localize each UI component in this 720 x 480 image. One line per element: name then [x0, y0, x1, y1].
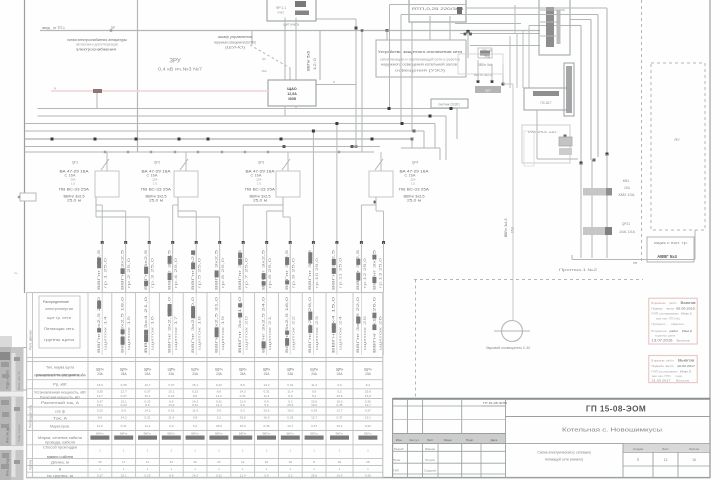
- svg-text:ЯУ: ЯУ: [674, 137, 680, 142]
- svg-text:гр.1 25,0: гр.1 25,0: [104, 258, 108, 288]
- svg-text:ЩО: ЩО: [485, 89, 491, 93]
- svg-text:АВВГ 5х4: АВВГ 5х4: [657, 254, 677, 259]
- bus y=152: [25, 151, 374, 153]
- svg-text:Проверил: Проверил: [652, 322, 666, 326]
- svg-text:ВВГнг 3х2,5: ВВГнг 3х2,5: [215, 250, 219, 290]
- svg-text:0,35: 0,35: [365, 474, 371, 478]
- cable mark cell col 5: [186, 436, 205, 440]
- svg-text:ВВГнг 3х2,5: ВВГнг 3х2,5: [356, 250, 360, 290]
- svg-text:ВВГнг: ВВГнг: [120, 431, 128, 435]
- svg-text:12,5А: 12,5А: [287, 92, 297, 96]
- svg-text:число: число: [666, 307, 674, 311]
- svg-text:Расчетный ток, А: Расчетный ток, А: [41, 401, 80, 405]
- direct bus feed column 10: [312, 131, 314, 242]
- dashed vertical x=641.5: [641, 0, 643, 261]
- svg-text:щиток 26: щиток 26: [379, 316, 383, 350]
- frame label box: [20, 193, 36, 201]
- svg-text:работ: работ: [669, 301, 678, 305]
- svg-text:ВВГнг 3х2,5: ВВГнг 3х2,5: [474, 73, 492, 77]
- svg-text:14,2: 14,2: [216, 394, 222, 398]
- svg-text:Подп. и дата: Подп. и дата: [6, 370, 10, 389]
- svg-text:Подп.: Подп.: [466, 438, 474, 442]
- margin dark box: [0, 352, 10, 360]
- margin dark mottling: [1, 362, 9, 367]
- svg-text:5,2: 5,2: [217, 415, 222, 419]
- wire main horizontal y=30: [40, 30, 356, 32]
- svg-text:16,0: 16,0: [311, 403, 317, 407]
- title mini table: [622, 443, 624, 477]
- svg-text:24А: 24А: [287, 372, 294, 376]
- svg-text:питающей сети (начало): питающей сети (начало): [545, 458, 584, 462]
- svg-text:14,2: 14,2: [144, 409, 150, 413]
- feeder column 13: [383, 243, 385, 293]
- sheet bottom frame: [26, 477, 710, 479]
- svg-text:Изм.3: Изм.3: [680, 370, 691, 374]
- svg-text:14,2: 14,2: [168, 403, 174, 407]
- svg-text:14,2: 14,2: [121, 415, 127, 419]
- svg-text:щиток 18: щиток 18: [198, 316, 202, 350]
- svg-text:№ группы, м: № группы, м: [47, 474, 74, 478]
- svg-text:гр.3 25,0: гр.3 25,0: [151, 258, 155, 288]
- svg-text:освещения (УЗО): освещения (УЗО): [395, 69, 445, 73]
- K7 bottom wire path: [536, 110, 538, 159]
- bus y=123.5: [25, 123, 435, 125]
- svg-text:КМ 25А авт.: КМ 25А авт.: [528, 130, 558, 134]
- svg-text:ПВ ВС-33 25А: ПВ ВС-33 25А: [59, 188, 90, 192]
- svg-text:11: 11: [146, 460, 149, 464]
- svg-text:10: 10: [289, 460, 293, 464]
- svg-text:12: 12: [241, 460, 245, 464]
- svg-text:5,2: 5,2: [366, 383, 371, 387]
- svg-text:0,9: 0,9: [193, 415, 198, 419]
- svg-text:ПВ ВС-33 25А: ПВ ВС-33 25А: [399, 188, 430, 192]
- svg-text:ВВГнг: ВВГнг: [96, 431, 104, 435]
- svg-text:ВВГнг: ВВГнг: [310, 431, 318, 435]
- wire U1 down legs: [284, 18, 286, 81]
- svg-text:25,0 м: 25,0 м: [253, 199, 267, 203]
- svg-text:8,6: 8,6: [241, 383, 246, 387]
- red stamp box 2: [649, 356, 698, 383]
- svg-text:Вьюгов: Вьюгов: [681, 301, 696, 305]
- stubs from U4 down to U3: [429, 16, 431, 40]
- svg-text:0,22: 0,22: [168, 394, 174, 398]
- svg-text:25,0 м: 25,0 м: [67, 199, 81, 203]
- svg-text:Лист: Лист: [427, 438, 434, 442]
- svg-text:1,0: 1,0: [71, 181, 76, 185]
- feeder column 6: [219, 243, 221, 293]
- svg-text:гр.9 25,0: гр.9 25,0: [292, 258, 296, 288]
- svg-text:Разраб.: Разраб.: [394, 447, 405, 451]
- svg-text:ВВГнг 3х2,5: ВВГнг 3х2,5: [97, 250, 101, 290]
- svg-text:12,7: 12,7: [287, 424, 293, 428]
- top verticals feeding buses: [390, 4, 467, 6]
- relay group enclosure box: [522, 125, 570, 163]
- svg-text:Марка пров.: Марка пров.: [50, 425, 70, 429]
- svg-text:ГИП согласовано: ГИП согласовано: [652, 312, 679, 316]
- svg-text:В произ-во: В произ-во: [652, 301, 666, 305]
- feeder group QF4 input wire: [380, 152, 382, 171]
- svg-text:QF: QF: [262, 57, 266, 61]
- svg-text:11,4: 11,4: [240, 474, 246, 478]
- svg-text:0,9: 0,9: [288, 394, 293, 398]
- svg-text:ГИП: ГИП: [393, 469, 399, 473]
- svg-text:25,0 м: 25,0 м: [149, 199, 163, 203]
- svg-text:Стадия: Стадия: [633, 447, 644, 451]
- svg-text:0,22: 0,22: [97, 409, 103, 413]
- title rows left: [393, 450, 506, 452]
- svg-text:21.03.2017: 21.03.2017: [652, 379, 671, 383]
- svg-text:сигнализации и отключающей сет: сигнализации и отключающей сети и розето…: [380, 58, 461, 62]
- svg-text:0,22: 0,22: [365, 424, 371, 428]
- connector box K6 narrow: [564, 63, 574, 116]
- svg-text:12,7: 12,7: [97, 394, 103, 398]
- svg-text:8,6: 8,6: [122, 409, 127, 413]
- svg-text:ФР 2.1: ФР 2.1: [276, 6, 286, 10]
- svg-text:ВВГнг: ВВГнг: [336, 431, 344, 435]
- feeder table frame: [27, 293, 383, 478]
- svg-text:5,2: 5,2: [264, 403, 269, 407]
- svg-text:0,37: 0,37: [97, 474, 103, 478]
- margin white dividers: [0, 392, 24, 397]
- svg-text:24А: 24А: [337, 372, 344, 376]
- svg-text:щиток 24: щиток 24: [338, 316, 342, 350]
- svg-text:Звуковой оповещатель С-40: Звуковой оповещатель С-40: [486, 346, 531, 350]
- svg-text:Расч. данные: Расч. данные: [29, 330, 33, 350]
- svg-text:Группа: Группа: [29, 460, 33, 470]
- cable mark cell col 4: [162, 436, 181, 440]
- svg-text:линия электроснабжения аппарат: линия электроснабжения аппаратуры: [67, 38, 128, 42]
- svg-text:05.09.2015: 05.09.2015: [676, 307, 695, 311]
- bus y=146.5: [25, 146, 380, 148]
- svg-text:ВВГнг: ВВГнг: [263, 431, 271, 435]
- riser x=355 drop: [355, 31, 357, 147]
- svg-text:15,0: 15,0: [511, 227, 515, 233]
- svg-text:гр.7 25,0: гр.7 25,0: [245, 258, 249, 288]
- svg-text:0,37: 0,37: [144, 389, 150, 393]
- extra crossing wires top right: [455, 23, 521, 25]
- riser x=362: [361, 31, 363, 153]
- svg-text:ЩАО: ЩАО: [287, 87, 297, 91]
- feeder column 11: [336, 243, 338, 293]
- feeder column 3: [148, 243, 150, 293]
- svg-text:гр.8 25,0: гр.8 25,0: [268, 258, 272, 288]
- svg-text:0,31: 0,31: [240, 394, 246, 398]
- sheet right frame: [709, 0, 711, 478]
- svg-text:ПВ ВС-33 25А: ПВ ВС-33 25А: [141, 188, 172, 192]
- svg-text:0,9: 0,9: [337, 383, 342, 387]
- junction x594: [593, 159, 596, 162]
- feeder column 12: [360, 243, 362, 293]
- svg-text:В произ-во: В произ-во: [652, 329, 667, 333]
- svg-text:ВВГнг: ВВГнг: [167, 431, 175, 435]
- svg-text:16А 10А: 16А 10А: [619, 230, 636, 234]
- svg-text:ГИП согласовано: ГИП согласовано: [652, 370, 678, 374]
- feeder column 4: [172, 243, 174, 293]
- feeder column 7: [242, 243, 244, 293]
- svg-text:24А: 24А: [240, 372, 247, 376]
- feeder group QF2 input wire: [185, 152, 187, 171]
- svg-text:0,31: 0,31: [287, 383, 293, 387]
- margin connectors: [24, 347, 27, 349]
- K2 drop wires to bus: [284, 106, 286, 116]
- junction pair y=34: [464, 33, 467, 36]
- svg-text:25А: 25А: [624, 186, 631, 190]
- svg-text:5,2: 5,2: [288, 474, 293, 478]
- svg-text:ГП 15-08-ЭОМ: ГП 15-08-ЭОМ: [483, 401, 508, 405]
- bus y=108.5: [38, 108, 458, 110]
- svg-text:11,4: 11,4: [311, 383, 317, 387]
- svg-text:10: 10: [265, 460, 269, 464]
- dashed vertical x=415.5: [415, 280, 417, 399]
- svg-text:0,37: 0,37: [336, 415, 342, 419]
- svg-text:ВВГнг: ВВГнг: [215, 431, 223, 435]
- svg-text:ВВГнг: ВВГнг: [191, 431, 199, 435]
- svg-text:11,4: 11,4: [168, 415, 174, 419]
- svg-text:QF1: QF1: [72, 161, 79, 165]
- svg-text:щиток 20: щиток 20: [245, 316, 249, 350]
- bus y=139: [25, 138, 412, 140]
- svg-text:24А: 24А: [192, 372, 199, 376]
- svg-text:щит гр. сети: щит гр. сети: [47, 316, 71, 320]
- feeder junction dots row y=242: [101, 241, 104, 244]
- left margin block: [0, 336, 12, 347]
- contactor cluster B right: [583, 227, 608, 235]
- svg-text:16,0: 16,0: [263, 415, 269, 419]
- svg-text:щиток 22: щиток 22: [292, 316, 296, 350]
- svg-text:Взам. инв. №: Взам. инв. №: [17, 371, 21, 390]
- bus end drops staircase: [456, 109, 458, 140]
- svg-text:щиток 21: щиток 21: [268, 316, 272, 350]
- svg-text:20: 20: [338, 460, 342, 464]
- drop from red blob: [96, 93, 98, 109]
- svg-text:ВВГнг 3х1,5: ВВГнг 3х1,5: [504, 218, 508, 237]
- svg-text:15,1: 15,1: [336, 424, 342, 428]
- svg-text:№док.: №док.: [444, 438, 453, 442]
- cable mark cell col 9: [281, 436, 300, 440]
- svg-text:щиток 17: щиток 17: [174, 316, 178, 350]
- faint rect below K7: [524, 131, 534, 166]
- svg-text:гр.12 25,0: гр.12 25,0: [363, 258, 367, 288]
- svg-text:наружным освещением (ШУНО): наружным освещением (ШУНО): [214, 41, 256, 45]
- small connector box: [478, 48, 492, 58]
- feeder group QF1 input wire: [106, 152, 108, 171]
- svg-text:25,0 м: 25,0 м: [407, 199, 421, 203]
- svg-text:Изм.2: Изм.2: [682, 329, 692, 333]
- svg-text:0,37: 0,37: [311, 424, 317, 428]
- feeder column 5: [195, 243, 197, 293]
- svg-text:работ: работ: [666, 359, 675, 363]
- svg-text:11,4: 11,4: [145, 424, 151, 428]
- small outline box around labels: [458, 54, 503, 74]
- svg-text:1,0: 1,0: [153, 181, 158, 185]
- svg-text:0,9: 0,9: [264, 474, 269, 478]
- K4 dark element: [457, 7, 462, 15]
- node tick x=110: [110, 29, 113, 32]
- svg-text:гр.2 25,0: гр.2 25,0: [127, 258, 131, 288]
- fan out wires: [96, 204, 102, 206]
- svg-text:гр.5 25,0: гр.5 25,0: [198, 258, 202, 288]
- sheet left frame: [24, 0, 26, 293]
- svg-text:5,2: 5,2: [337, 389, 342, 393]
- svg-text:25,6: 25,6: [311, 474, 317, 478]
- box U2 ShchAO: [268, 80, 316, 106]
- svg-text:счет.: счет.: [278, 11, 285, 15]
- svg-text:0,35: 0,35: [97, 389, 103, 393]
- contactor cluster A right: [580, 163, 582, 258]
- svg-text:группы щита: группы щита: [44, 338, 74, 342]
- wire y=30.5 extension to right: [356, 30, 540, 32]
- svg-text:электроэнергии: электроэнергии: [45, 307, 73, 311]
- svg-text:щиток 16: щиток 16: [151, 316, 155, 350]
- svg-text:QF3: QF3: [258, 161, 265, 165]
- svg-text:подп.: подп.: [675, 374, 683, 378]
- svg-text:0,31: 0,31: [216, 474, 222, 478]
- svg-text:25,6: 25,6: [240, 415, 246, 419]
- svg-text:0,35: 0,35: [311, 409, 317, 413]
- svg-text:14,2: 14,2: [263, 383, 269, 387]
- svg-text:16А: 16А: [261, 69, 266, 73]
- junctions bus y=146.5: [283, 145, 286, 148]
- wire vertical x=356 from K1: [355, 19, 357, 31]
- svg-text:Устройство защитного отключени: Устройство защитного отключения сети: [378, 50, 462, 54]
- svg-text:ВВГнг 5х6: ВВГнг 5х6: [307, 51, 311, 71]
- svg-text:ВВГнг 3х4 21,0: ВВГнг 3х4 21,0: [144, 297, 148, 353]
- bell feeder wire: [512, 84, 514, 321]
- svg-text:QF21: QF21: [622, 222, 630, 226]
- svg-text:0,9: 0,9: [312, 389, 317, 393]
- stub into U3: [386, 31, 388, 41]
- svg-text:провода, кабеля: провода, кабеля: [45, 440, 75, 444]
- svg-text:гр.4 25,0: гр.4 25,0: [174, 258, 178, 288]
- svg-text:25А: 25А: [484, 55, 491, 59]
- svg-text:1,0: 1,0: [411, 181, 416, 185]
- cable mark cell col 1: [90, 436, 109, 440]
- svg-text:ВВГнг 5х6: ВВГнг 5х6: [478, 63, 493, 67]
- svg-text:щиток 19: щиток 19: [221, 316, 225, 350]
- svg-text:0,9: 0,9: [217, 409, 222, 413]
- svg-text:подпись дата: подпись дата: [655, 334, 675, 338]
- svg-text:Дата: Дата: [491, 438, 498, 442]
- svg-text:Иванов: Иванов: [425, 447, 435, 451]
- svg-text:24А: 24А: [216, 372, 223, 376]
- svg-text:Схема электрическая (с сетевым: Схема электрическая (с сетевым): [537, 451, 590, 455]
- cable mark cell col 8: [257, 436, 276, 440]
- svg-text:Котельная с. Новошимкусы: Котельная с. Новошимкусы: [562, 428, 662, 434]
- svg-text:0,22: 0,22: [121, 403, 127, 407]
- table header cell text: [39, 296, 80, 348]
- svg-text:Длина, м: Длина, м: [51, 461, 70, 465]
- svg-text:ящик с пон. тр.: ящик с пон. тр.: [654, 241, 688, 245]
- svg-text:ВВГнг: ВВГнг: [364, 431, 372, 435]
- direct bus feed column 11: [336, 124, 338, 243]
- title band: [393, 434, 505, 444]
- svg-text:счетчик СЕ301: счетчик СЕ301: [438, 103, 460, 107]
- svg-text:25: 25: [366, 460, 370, 464]
- svg-text:20: 20: [193, 460, 197, 464]
- svg-text:0,22: 0,22: [192, 389, 198, 393]
- svg-text:В произ-во: В произ-во: [652, 359, 665, 363]
- svg-text:QF2: QF2: [154, 161, 161, 165]
- svg-text:23: 23: [217, 460, 221, 464]
- svg-text:0,35: 0,35: [336, 403, 342, 407]
- svg-text:КМ1: КМ1: [623, 179, 630, 183]
- svg-text:5,2: 5,2: [312, 394, 317, 398]
- feeder column 8: [266, 243, 268, 293]
- bus y=131: [25, 130, 424, 132]
- svg-text:8,6: 8,6: [145, 403, 150, 407]
- svg-text:QF4: QF4: [412, 161, 419, 165]
- svg-text:15,1: 15,1: [121, 474, 127, 478]
- svg-text:Петров: Петров: [425, 458, 435, 462]
- box U1 control cabinet top: [267, 0, 316, 21]
- svg-text:Вьюгов: Вьюгов: [678, 359, 694, 363]
- svg-text:25,6: 25,6: [287, 403, 293, 407]
- svg-text:16: 16: [692, 458, 696, 462]
- svg-text:зам. нач. ПТО: зам. нач. ПТО: [652, 374, 672, 378]
- svg-text:зам. нач. ПТО №1: зам. нач. ПТО №1: [656, 317, 680, 321]
- svg-text:ВВГнг 3х2,5 31,0: ВВГнг 3х2,5 31,0: [215, 297, 219, 353]
- svg-text:16,0: 16,0: [240, 424, 246, 428]
- svg-text:11,4: 11,4: [287, 389, 293, 393]
- wire vertical riser x=137.5: [137, 0, 139, 152]
- connector box K5: [539, 0, 570, 55]
- cable mark cell col 10: [305, 436, 324, 440]
- junctions bus y=152 light: [104, 151, 106, 153]
- svg-text:25,6: 25,6: [365, 389, 371, 393]
- svg-text:16,0: 16,0: [336, 474, 342, 478]
- svg-text:щиток 14: щиток 14: [104, 316, 108, 350]
- svg-text:13: 13: [664, 458, 668, 462]
- svg-text:гр.6 25,0: гр.6 25,0: [221, 258, 225, 288]
- svg-text:Ток, А: Ток, А: [53, 417, 68, 421]
- cable mark cell col 12: [358, 436, 377, 440]
- svg-text:ГП 15-08-ЭОМ: ГП 15-08-ЭОМ: [586, 405, 646, 414]
- svg-text:Подп. и дата: Подп. и дата: [17, 424, 21, 442]
- cable mark cell col 3: [138, 436, 157, 440]
- svg-text:0,31: 0,31: [121, 424, 127, 428]
- svg-text:11,4: 11,4: [264, 394, 270, 398]
- box under dashed: [647, 237, 694, 262]
- svg-text:ВВГнг: ВВГнг: [239, 431, 247, 435]
- svg-text:15,1: 15,1: [365, 415, 371, 419]
- svg-text:ПС-817: ПС-817: [541, 101, 552, 105]
- svg-text:от ТП-1: от ТП-1: [53, 26, 65, 30]
- feeder column 9: [289, 243, 291, 293]
- svg-text:ввод: ввод: [42, 26, 49, 30]
- svg-text:24А: 24А: [264, 372, 271, 376]
- svg-text:Кол.уч.: Кол.уч.: [410, 438, 420, 442]
- red emergency line: [51, 90, 268, 92]
- svg-text:12,7: 12,7: [365, 403, 371, 407]
- svg-text:автоматики и диспетчеризации: автоматики и диспетчеризации: [76, 43, 118, 47]
- svg-text:работ: работ: [670, 329, 680, 333]
- feeder column 1: [101, 243, 103, 293]
- svg-text:14,2: 14,2: [240, 389, 246, 393]
- cluster junctions: [477, 80, 480, 83]
- svg-text:0,4 кВ яч.№3 №7: 0,4 кВ яч.№3 №7: [158, 67, 203, 72]
- svg-text:наружного освещения котельной: наружного освещения котельной залов: [381, 63, 457, 67]
- svg-text:КМ2 10А: КМ2 10А: [619, 193, 636, 197]
- isolator out stub: [289, 68, 291, 80]
- junctions bus y=139: [51, 138, 54, 141]
- diagonal isolator mark: [250, 45, 290, 68]
- gray bar box: [475, 86, 501, 93]
- riser x=320 with labels: [319, 31, 321, 81]
- isolator feed stub: [251, 31, 253, 46]
- svg-text:ВВГнг: ВВГнг: [286, 431, 294, 435]
- svg-text:cos ф: cos ф: [55, 409, 65, 413]
- nested wires top right: [466, 7, 607, 9]
